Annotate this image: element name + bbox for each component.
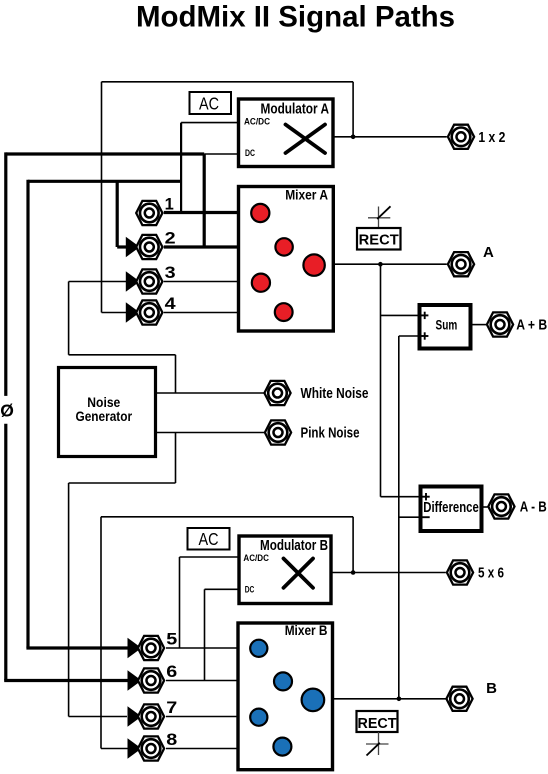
node: junction on A output	[378, 262, 383, 267]
op block: Sum box	[420, 305, 471, 349]
knob: Mixer A red output	[303, 254, 324, 275]
wire: thick DC-A/jack2 bus horizontal	[6, 152, 204, 155]
jack: output 5 x 6	[447, 560, 504, 584]
svg-text:ModMix II Signal Paths: ModMix II Signal Paths	[136, 1, 455, 34]
knob: Mixer A red 4	[275, 303, 293, 321]
wire: 1x2 feedback top run	[102, 81, 354, 83]
wire: white-noise branch horizontal	[69, 354, 176, 356]
svg-text:5 x 6: 5 x 6	[478, 565, 504, 582]
svg-text:A + B: A + B	[516, 317, 547, 334]
wire: pink-noise branch horizontal	[69, 482, 176, 484]
knob: Mixer A red 3	[252, 274, 270, 292]
label box: AC (channel A)	[190, 92, 232, 114]
jack: output 1 x 2	[448, 125, 506, 149]
wire: signal-B vertical chain	[398, 336, 400, 699]
wire: jack 1 to Mixer A input 1	[164, 211, 239, 214]
wire: pink noise output	[156, 432, 265, 434]
symbol: multiply X (Modulator B)	[284, 559, 314, 588]
jack: output Pink Noise	[265, 420, 360, 444]
svg-text:8: 8	[166, 731, 177, 749]
svg-text:AC/DC: AC/DC	[244, 117, 270, 127]
mixer block: Mixer A box	[239, 187, 334, 332]
wire: Modulator A output to 1x2 jack	[333, 136, 447, 138]
svg-text:AC/DC: AC/DC	[243, 553, 269, 563]
svg-text:RECT: RECT	[358, 716, 397, 732]
wire: jack6 riser to Modulator B DC	[204, 589, 206, 680]
jack: input 1	[136, 196, 174, 226]
wire: Sum + input (B)	[399, 335, 421, 337]
wire: white noise output	[156, 392, 265, 394]
wire: Mixer A output to jack A	[332, 263, 447, 265]
svg-text:DC: DC	[245, 584, 255, 594]
svg-text:4: 4	[165, 295, 177, 313]
knob: Mixer B blue 2	[274, 672, 292, 690]
wire: feed into jack 4	[102, 312, 128, 314]
jack: output A + B	[487, 312, 547, 336]
svg-text:Sum: Sum	[436, 318, 458, 333]
svg-text:Mixer A: Mixer A	[285, 187, 328, 203]
wire: Sum output to A+B jack	[471, 324, 486, 326]
wire: jack 6 to Mixer B input 2	[166, 680, 239, 682]
wire: white-noise branch drop	[175, 355, 177, 393]
wire: thick jack1/AC-bus horizontal	[28, 180, 181, 183]
node: junction on 1x2 output	[351, 135, 356, 140]
wire: thick stub into jack 2 arrow	[117, 245, 127, 248]
jack: input 4	[126, 295, 177, 325]
wire: thick drop from DC bus to jack 2 line	[203, 154, 206, 247]
wire: jack 5 to Mixer B input 1	[166, 647, 239, 649]
wire: Modulator B output to 5x6 jack	[331, 572, 446, 574]
svg-text:Ø: Ø	[0, 401, 14, 421]
wire: signal-A vertical chain	[380, 264, 382, 497]
label box: RECT (channel A)	[357, 228, 401, 250]
wire: thick left bus vertical upper (to phase symbol)	[4, 152, 7, 396]
knob: Mixer A red 2	[275, 238, 292, 255]
svg-text:AC: AC	[199, 529, 219, 549]
svg-text:White Noise: White Noise	[301, 386, 369, 402]
wire: Sum + input (A)	[381, 314, 422, 316]
wire: feed into jack 7	[69, 716, 127, 718]
svg-text:RECT: RECT	[359, 232, 399, 248]
knob: Mixer B blue output	[302, 689, 325, 712]
jack: input 7	[128, 699, 178, 729]
wire: Modulator B DC input	[205, 588, 241, 590]
knob: Mixer B blue 3	[250, 709, 267, 726]
source block: Noise Generator box	[59, 368, 156, 457]
node: junction on B output	[397, 697, 402, 702]
wire: thick feed into jack 5	[26, 646, 130, 649]
svg-text:Difference: Difference	[423, 499, 479, 516]
wire: feed into jack 8	[101, 748, 129, 750]
label box: AC (channel B)	[188, 528, 230, 550]
symbol: rectifier slash (channel B)	[366, 732, 389, 756]
wire: jack 3 to Mixer A input 3	[164, 281, 239, 283]
jack: input 2	[126, 230, 176, 260]
svg-text:DC: DC	[245, 148, 255, 158]
pin label: + (Difference)	[422, 496, 429, 498]
jack: output B	[446, 680, 497, 711]
wire: Difference + input (A)	[381, 496, 422, 498]
jack: input 6	[128, 663, 178, 693]
svg-text:A: A	[483, 244, 494, 261]
svg-text:A - B: A - B	[520, 499, 547, 516]
wire: jack1 riser to Modulator A AC/DC	[180, 123, 182, 213]
wire: thick drop to jack 2 feed	[116, 181, 119, 247]
svg-text:Mixer B: Mixer B	[285, 622, 328, 638]
svg-text:B: B	[486, 680, 497, 697]
svg-text:5: 5	[166, 631, 177, 649]
wire: thick left bus vertical lower (phase to jack6)	[4, 424, 7, 681]
jack: output A - B	[488, 494, 547, 518]
svg-text:7: 7	[166, 699, 177, 717]
label box: RECT (channel B)	[357, 711, 398, 732]
knob: Mixer B blue 4	[273, 738, 291, 756]
wire: white-noise branch vertical to jack 3	[68, 282, 70, 355]
wire: 1x2 feedback left drop to jack 4	[101, 82, 103, 313]
svg-text:3: 3	[165, 264, 176, 282]
wire: 5x6 feedback top run	[101, 516, 353, 518]
wire: feed into jack 3	[69, 281, 127, 283]
wire: Modulator A AC/DC input	[181, 122, 239, 124]
jack: output A	[448, 244, 494, 276]
svg-text:AC: AC	[199, 93, 219, 113]
op block: Modulator B box U2	[239, 536, 331, 604]
pin label: + (Sum bottom)	[421, 335, 428, 337]
wire: pink-noise branch drop	[175, 433, 177, 484]
svg-text:Pink Noise: Pink Noise	[301, 425, 360, 441]
wire: jack 8 to Mixer B input 4	[166, 748, 239, 750]
svg-text:Modulator A: Modulator A	[261, 100, 330, 117]
node: junction on 5x6 output	[351, 570, 356, 575]
jack: input 5	[128, 631, 178, 661]
svg-text:Modulator B: Modulator B	[260, 537, 328, 554]
wire: Difference - input (B)	[399, 516, 422, 518]
jack: input 3	[126, 264, 176, 294]
svg-text:2: 2	[165, 230, 176, 248]
op block: Difference box	[421, 487, 482, 532]
knob: Mixer B blue 1	[250, 640, 267, 657]
pin label: - (Difference)	[422, 516, 429, 518]
svg-text:6: 6	[166, 663, 177, 681]
wire: 5x6 feedback riser	[352, 517, 354, 573]
wire: Difference output to A-B jack	[482, 506, 488, 508]
svg-text:Generator: Generator	[76, 408, 133, 424]
svg-text:1: 1	[165, 196, 174, 214]
wire: Mixer B output to jack B	[331, 698, 446, 700]
pin label: + (Sum top)	[421, 314, 428, 316]
mixer block: Mixer B box	[238, 623, 333, 770]
wire: Modulator A DC input spur	[204, 153, 239, 155]
knob: Mixer A red 1	[251, 204, 269, 222]
wire: thick feed into jack 6	[4, 679, 130, 682]
wire: Modulator B AC/DC input	[180, 556, 241, 558]
wire: thick second bus vertical (to jack5)	[26, 180, 29, 648]
symbol: rectifier slash (channel A)	[368, 206, 391, 228]
wire: jack5 riser to Modulator B AC/DC	[179, 557, 181, 648]
wire: jack 7 to Mixer B input 3	[166, 716, 239, 718]
wire: jack 2 to Mixer A input 2	[164, 245, 239, 248]
wire: 5x6 feedback left drop to jack 8	[100, 517, 102, 749]
op block: Modulator A box U1	[239, 99, 334, 167]
wire: pink-noise branch vertical to jack 7	[68, 483, 70, 717]
wire: 1x2 feedback riser	[352, 82, 354, 137]
jack: input 8	[128, 731, 178, 761]
wire: jack 4 to Mixer A input 4	[164, 312, 239, 314]
jack: output White Noise	[264, 381, 368, 405]
symbol: multiply X (Modulator A)	[286, 125, 326, 154]
svg-text:1 x 2: 1 x 2	[478, 129, 505, 146]
